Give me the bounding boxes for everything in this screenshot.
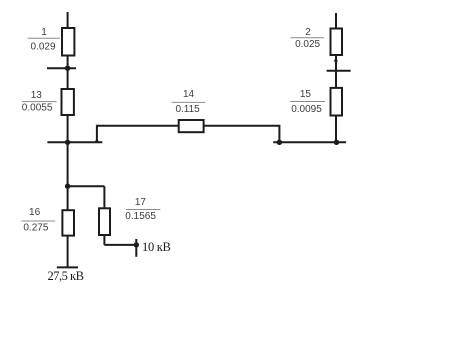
label 13 value 0.0055: [22, 90, 57, 114]
svg-text:2: 2: [305, 27, 311, 38]
svg-text:0.0055: 0.0055: [22, 103, 53, 114]
junction dot 10kV terminal: [134, 242, 139, 247]
label 14 value 0.115: [172, 89, 206, 115]
resistor R13: [62, 89, 74, 115]
wire: riser down to R17: [103, 186, 105, 208]
svg-text:0.115: 0.115: [175, 104, 200, 115]
svg-text:0.1565: 0.1565: [125, 211, 156, 222]
svg-text:1: 1: [41, 27, 47, 38]
svg-text:15: 15: [300, 89, 312, 100]
label 1 value 0.029: [28, 27, 60, 52]
svg-text:0.0095: 0.0095: [291, 104, 322, 115]
junction dot left tick: [65, 66, 70, 71]
right bus: [273, 141, 346, 143]
junction dot right bus right: [334, 140, 339, 145]
label 2 value 0.025: [291, 27, 325, 50]
label 17 value 0.1565: [125, 197, 160, 222]
riser: left bus to R14 line: [97, 126, 179, 143]
wire: branch node to R17 riser: [68, 185, 105, 187]
resistor R1: [62, 28, 74, 56]
arrowhead below R2: [334, 58, 338, 62]
wire: R15 bottom to right bus: [335, 116, 337, 143]
resistor R17: [99, 208, 110, 235]
wire: left bus down to branch node: [67, 142, 69, 186]
svg-text:27,5 кВ: 27,5 кВ: [48, 269, 84, 283]
svg-text:17: 17: [135, 197, 147, 208]
terminal tick 10kV: [135, 239, 137, 257]
wire: R1 bottom to R13 top: [67, 56, 69, 90]
node tick between R1 and R13: [47, 67, 76, 69]
resistor R16: [62, 210, 74, 235]
svg-text:16: 16: [29, 207, 41, 218]
resistor R14: [179, 120, 204, 132]
wire: top feed above R1: [67, 12, 69, 29]
terminal bar 27.5kV: [57, 266, 78, 268]
svg-text:0.025: 0.025: [295, 39, 320, 50]
wire: R17 bottom down: [103, 235, 105, 245]
svg-text:0.275: 0.275: [23, 223, 48, 234]
wire: R2 bottom to R15 top: [335, 55, 337, 88]
svg-text:10 кВ: 10 кВ: [142, 240, 171, 254]
resistor R15: [331, 88, 343, 116]
label 15 value 0.0095: [290, 89, 325, 115]
wire: branch node down to R16: [67, 186, 69, 210]
wire: R14 right to right riser: [204, 126, 280, 143]
svg-text:14: 14: [183, 89, 195, 100]
left bus: [47, 141, 102, 143]
node tick between R2 and R15: [327, 70, 351, 72]
junction dot left bus riser: [94, 139, 99, 143]
wire: to 10kV terminal: [104, 244, 136, 246]
svg-text:13: 13: [31, 90, 43, 101]
svg-text:0.029: 0.029: [30, 41, 55, 52]
label 16 value 0.275: [21, 207, 55, 234]
junction dot left bus: [65, 140, 70, 145]
wire: top feed above R2: [335, 13, 337, 29]
wire: R13 bottom to left bus: [67, 115, 69, 142]
wire: R16 bottom to terminal: [67, 236, 69, 268]
junction dot branch node: [65, 184, 70, 189]
resistor R2: [331, 29, 343, 56]
junction dot right bus left: [277, 140, 282, 145]
